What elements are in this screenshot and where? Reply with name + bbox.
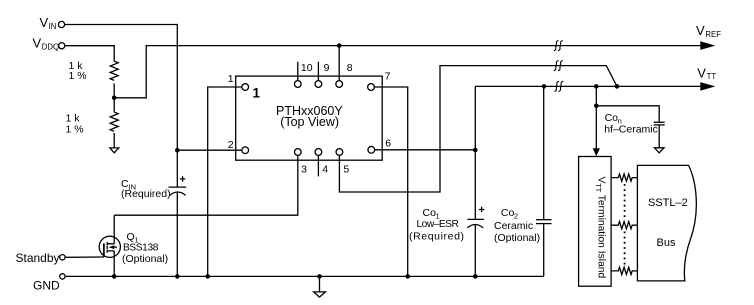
svg-text:(Optional): (Optional) [494, 232, 540, 244]
svg-text:Q: Q [127, 231, 135, 243]
svg-text:2: 2 [228, 139, 234, 151]
svg-text:Low–ESR: Low–ESR [417, 219, 459, 230]
svg-text:GND: GND [33, 279, 60, 293]
svg-text:SSTL–2: SSTL–2 [648, 197, 688, 209]
svg-text:IN: IN [49, 22, 57, 31]
svg-text:(Optional): (Optional) [122, 253, 168, 265]
svg-text:(Required): (Required) [409, 231, 465, 243]
svg-text:1: 1 [253, 85, 261, 100]
svg-text:1: 1 [228, 73, 234, 85]
svg-text:Bus: Bus [657, 237, 676, 249]
svg-text:V: V [40, 15, 49, 30]
svg-text:1 %: 1 % [66, 123, 84, 135]
svg-text:6: 6 [385, 138, 391, 150]
svg-text:(Required): (Required) [121, 188, 171, 200]
svg-text:Co: Co [605, 112, 619, 124]
svg-text:4: 4 [322, 163, 328, 175]
svg-text:V: V [697, 65, 706, 80]
svg-text:hf–Ceramic: hf–Ceramic [604, 124, 658, 136]
svg-text:8: 8 [347, 62, 353, 74]
svg-text:9: 9 [324, 62, 330, 74]
svg-text:7: 7 [385, 71, 391, 83]
svg-text:TT: TT [707, 72, 717, 81]
svg-text:V: V [33, 35, 42, 50]
svg-text:10: 10 [301, 62, 313, 74]
svg-text:Co: Co [423, 207, 437, 219]
svg-text:Termination Island: Termination Island [596, 195, 607, 279]
svg-text:1 %: 1 % [69, 70, 87, 82]
svg-text:V: V [696, 23, 705, 38]
svg-text:5: 5 [343, 163, 349, 175]
svg-text:Standby: Standby [16, 251, 60, 265]
svg-text:(Top View): (Top View) [280, 115, 339, 129]
svg-text:Co: Co [501, 207, 515, 219]
svg-text:3: 3 [301, 163, 307, 175]
svg-text:BSS138: BSS138 [123, 243, 159, 254]
svg-text:DDQ: DDQ [42, 43, 59, 52]
svg-text:REF: REF [705, 30, 721, 39]
svg-text:Ceramic: Ceramic [494, 220, 533, 232]
svg-text:TT: TT [594, 183, 603, 192]
